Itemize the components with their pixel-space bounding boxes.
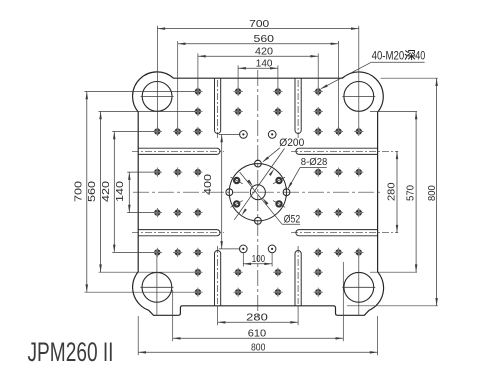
- centerline of right upper slot + 280 dim extension: [291, 150, 398, 152]
- centerline of left upper slot: [132, 150, 224, 152]
- svg-text:100: 100: [252, 254, 265, 265]
- svg-text:700: 700: [73, 181, 84, 202]
- extension line bottom 800-right: [377, 316, 379, 355]
- T-slot left upper horizontal: [138, 148, 220, 154]
- svg-text:570: 570: [406, 185, 417, 201]
- hole-row centerline y-row 6: [112, 251, 157, 253]
- left dimension 700 line and arrows: [86, 92, 89, 293]
- svg-text:420: 420: [255, 46, 273, 57]
- T-slot bottom-right vertical: [295, 251, 301, 306]
- svg-text:8-Ø28: 8-Ø28: [301, 157, 328, 168]
- bolt hole D28 west: [226, 187, 233, 197]
- bolt hole D28 north: [253, 160, 263, 167]
- extension line col 420-left: [197, 53, 199, 92]
- hole-row centerline y-row 5: [127, 212, 157, 214]
- extension line col tie-bar right: [358, 26, 360, 132]
- svg-text:800: 800: [251, 343, 266, 354]
- left dimension 420 line and arrows: [113, 132, 116, 253]
- centerline vertical through bottom-left lobe: [156, 252, 158, 315]
- svg-text:Ø52: Ø52: [284, 214, 300, 226]
- tie-bar hole top-left: [141, 82, 174, 112]
- reference mark 1: [240, 131, 248, 139]
- T-slot bottom-left vertical: [215, 251, 221, 306]
- extension line bottom 610-right: [342, 262, 344, 341]
- T-slot right lower horizontal: [296, 230, 378, 236]
- M20 tapped holes row 1: [193, 87, 323, 96]
- hole-row centerline y-row 2: [99, 111, 418, 113]
- centerline of left lower slot: [132, 232, 224, 234]
- T-slot top-right vertical: [295, 78, 301, 133]
- svg-text:700: 700: [249, 19, 269, 30]
- svg-text:40-M20: 40-M20: [372, 50, 405, 62]
- extension line col tie-bar left: [156, 26, 158, 132]
- right dimension 280 line and arrows: [396, 151, 398, 232]
- centerline of right lower slot + 280 dim extension: [291, 232, 398, 234]
- svg-text:Ø200: Ø200: [279, 137, 304, 149]
- leader for D200 label: [262, 148, 280, 163]
- M20 tapped holes row 5: [153, 208, 364, 217]
- svg-text:280: 280: [246, 313, 268, 324]
- D52 leader with arrows and underline: [240, 172, 301, 224]
- leader and underline for 40-M20 depth 40 label: [320, 62, 424, 89]
- svg-text:800: 800: [427, 185, 438, 201]
- centerline of bottom-left slot: [217, 246, 219, 304]
- M20 tapped holes row 6: [153, 248, 364, 257]
- extension line bottom 610-left: [172, 290, 174, 341]
- tie-bar hole bottom-left: [140, 272, 173, 302]
- center nozzle hole D52: [250, 185, 265, 200]
- right dimension 570 line and arrows: [415, 112, 418, 273]
- reference mark 4: [268, 245, 276, 253]
- vertical center line: [257, 70, 259, 318]
- leader for 8-D28 label: [288, 168, 327, 190]
- horizontal center line: [133, 191, 383, 193]
- dimension 400 lines and arrows: [219, 134, 241, 249]
- bottom dimension 800 line and arrows: [138, 351, 377, 354]
- extension line col 560-left: [177, 41, 179, 132]
- bottom dimension 610 line and arrows: [173, 337, 344, 340]
- reference mark 3: [239, 245, 247, 253]
- T-slot top-left vertical: [215, 78, 221, 133]
- extension line col 560-right: [338, 41, 340, 132]
- svg-text:560: 560: [87, 181, 98, 202]
- hole-row centerline y-row 7: [99, 271, 418, 273]
- M20 tapped holes row 7: [193, 268, 323, 277]
- dimension 100 lines and arrows: [243, 253, 272, 266]
- svg-text:JPM260 II: JPM260 II: [28, 337, 114, 367]
- hole-row centerline y-row 3: [112, 131, 157, 133]
- counterbore hole 3 on bolt circle with radial tick: [231, 201, 243, 208]
- bottom dimension 280 line and arrows: [218, 321, 299, 324]
- hole-row centerline y-row 8: [85, 291, 198, 293]
- extension line right top edge: [381, 77, 438, 79]
- M20 tapped holes row 3: [153, 127, 364, 136]
- centerline of bottom-right slot: [297, 246, 299, 304]
- M20 tapped holes row 4: [153, 168, 364, 177]
- tie-bar hole top-right: [342, 82, 375, 112]
- extension line bottom 800-left: [137, 316, 139, 355]
- D200 diameter line with arrows: [234, 149, 284, 220]
- T-slot left lower horizontal: [138, 230, 220, 236]
- M20 tapped holes row 8: [193, 288, 323, 297]
- svg-text:40: 40: [415, 50, 425, 62]
- svg-text:610: 610: [248, 329, 267, 340]
- svg-text:140: 140: [256, 58, 273, 69]
- top dimension 560 line and arrows: [178, 43, 339, 46]
- svg-text:280: 280: [387, 182, 398, 201]
- CJK character 'depth': [405, 50, 415, 59]
- top dimension 420 line and arrows: [198, 55, 318, 58]
- tie-bar hole bottom-right: [342, 272, 375, 302]
- bolt hole D28 south: [253, 217, 263, 224]
- hole-row centerline y-row 4: [127, 171, 157, 173]
- counterbore hole 1 on bolt circle with radial tick: [273, 177, 285, 184]
- svg-text:140: 140: [115, 181, 126, 202]
- extension line right bottom edge: [347, 305, 438, 307]
- plate outline with corner lobes and bottom feet: [133, 72, 384, 315]
- left dimension 560 line and arrows: [99, 112, 102, 273]
- centerline of top-right slot: [297, 80, 299, 138]
- right dimension 800 line and arrows: [435, 78, 438, 306]
- extension line col 140-right: [277, 65, 279, 92]
- svg-text:400: 400: [203, 174, 214, 195]
- extension line bottom slot-right: [297, 306, 299, 325]
- left dimension 140 line and arrows: [128, 172, 131, 213]
- centerline of top-left slot: [217, 80, 219, 138]
- extension line bottom slot-left: [217, 306, 219, 325]
- top dimension 140 line and arrows: [238, 67, 278, 70]
- counterbore hole 4 on bolt circle with radial tick: [273, 201, 285, 208]
- extension line col 420-right: [317, 53, 319, 92]
- top dimension 700 line and arrows: [157, 27, 358, 30]
- hole-row centerline y-row 1: [85, 91, 198, 93]
- reference mark 2: [268, 131, 276, 139]
- extension line col 140-left: [237, 65, 239, 92]
- counterbore hole 2 on bolt circle with radial tick: [231, 177, 243, 184]
- T-slot right upper horizontal: [296, 148, 378, 154]
- svg-text:420: 420: [101, 181, 112, 202]
- bolt hole D28 east: [283, 187, 290, 197]
- centerline vertical through bottom-right lobe: [358, 252, 360, 315]
- svg-text:560: 560: [254, 34, 275, 45]
- locating ring circle D200: [229, 164, 286, 221]
- M20 tapped holes row 2: [193, 107, 323, 116]
